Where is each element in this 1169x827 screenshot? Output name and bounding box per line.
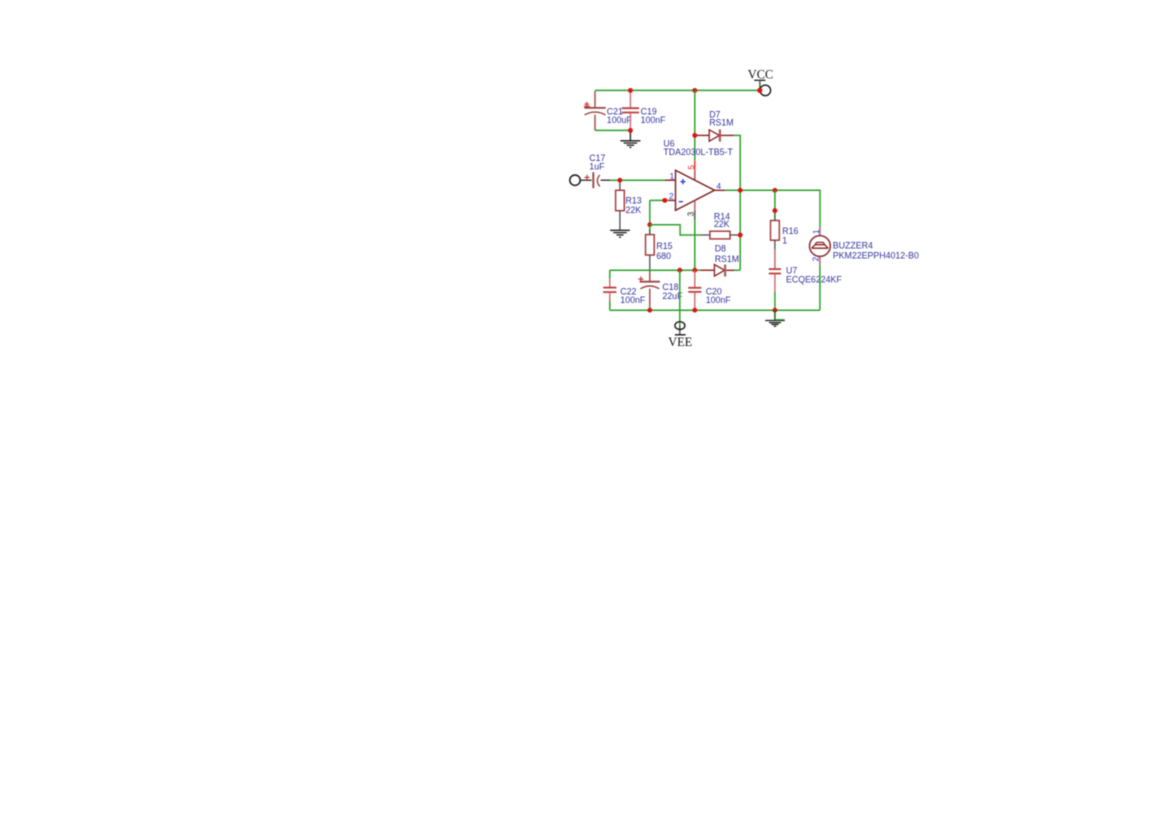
capacitor U7	[769, 249, 843, 310]
svg-text:RS1M: RS1M	[709, 118, 733, 128]
junction dot output	[738, 188, 743, 193]
wire buzzer to GND bus	[819, 265, 821, 310]
capacitor C17	[584, 153, 605, 188]
power port VCC	[748, 67, 773, 95]
svg-text:680: 680	[656, 251, 671, 261]
junction dot R16 upper	[772, 208, 777, 213]
svg-text:TDA2030L-TB5-T: TDA2030L-TB5-T	[663, 147, 733, 157]
resistor R15	[646, 226, 673, 271]
wire C17 to junction	[601, 179, 611, 181]
wire lower GND bus	[610, 309, 820, 311]
junction dot R14 right	[738, 233, 743, 238]
pin 2 wire	[650, 199, 669, 201]
power port VEE	[668, 322, 692, 350]
junction dot input	[617, 178, 622, 183]
resistor R16	[771, 217, 799, 250]
diode D8 RS1M	[695, 244, 739, 277]
pin 3 stub	[694, 201, 696, 211]
svg-text:100nF: 100nF	[641, 115, 667, 125]
wire input to C17	[580, 179, 591, 181]
wire feedback node to R14	[650, 225, 701, 235]
junction dot pin5 top	[692, 88, 697, 93]
wire output	[725, 190, 820, 227]
wire pin5 vertical	[694, 90, 696, 160]
capacitor C20	[688, 270, 731, 310]
capacitor C21	[584, 91, 632, 130]
pin 1 stub	[665, 179, 676, 181]
diode D7 RS1M	[695, 110, 735, 142]
junction dot feedback node	[647, 222, 652, 227]
wire top VCC bus	[595, 89, 760, 91]
wire D7 cathode to right vertical	[734, 135, 740, 270]
wire junction to pin1	[610, 179, 665, 181]
capacitor C22	[603, 270, 646, 310]
svg-text:ECQE6224KF: ECQE6224KF	[786, 275, 842, 285]
svg-text:1uF: 1uF	[589, 162, 605, 172]
svg-text:5: 5	[687, 164, 696, 169]
svg-text:BUZZER4: BUZZER4	[833, 241, 873, 251]
wire pin3 down	[694, 220, 696, 271]
buzzer BUZZER4	[810, 236, 919, 261]
svg-text:D8: D8	[715, 244, 726, 254]
junction dot GND node	[772, 308, 777, 313]
svg-text:2: 2	[669, 192, 674, 201]
svg-text:R15: R15	[656, 241, 672, 251]
svg-text:1: 1	[670, 172, 675, 181]
svg-text:VEE: VEE	[668, 335, 692, 349]
svg-text:VCC: VCC	[748, 67, 773, 81]
pin 4 stub	[715, 189, 726, 191]
svg-text:1: 1	[782, 236, 787, 246]
buzzer top lead	[819, 227, 821, 235]
svg-text:PKM22EPPH4012-B0: PKM22EPPH4012-B0	[833, 250, 919, 260]
resistor R14	[701, 211, 741, 239]
op-amp U6	[663, 138, 733, 210]
wire cap bottom	[595, 129, 630, 131]
junction dot C20 bottom	[692, 308, 697, 313]
svg-text:22K: 22K	[626, 205, 642, 215]
wire pin2 down to feedback node	[649, 200, 651, 224]
junction dot pin3 D8	[692, 268, 697, 273]
junction dot C19 top	[628, 88, 633, 93]
svg-text:22K: 22K	[714, 219, 730, 229]
ground below C19	[620, 132, 640, 147]
svg-text:100uF: 100uF	[607, 115, 633, 125]
svg-text:R16: R16	[782, 226, 798, 236]
wire VEE drop	[679, 270, 681, 325]
junction dot C18 bottom	[647, 308, 652, 313]
junction dot C19 bottom	[628, 128, 633, 133]
junction dot D7 anode	[692, 133, 697, 138]
junction dot VEE bus	[677, 268, 682, 273]
junction dot output R16	[772, 188, 777, 193]
svg-text:100nF: 100nF	[706, 295, 732, 305]
svg-text:100nF: 100nF	[620, 295, 646, 305]
capacitor C19	[622, 90, 666, 130]
ground below U7	[765, 310, 785, 326]
wire upper VEE bus	[610, 269, 695, 271]
input terminal	[570, 175, 580, 185]
svg-text:1: 1	[812, 229, 821, 234]
svg-text:RS1M: RS1M	[715, 254, 739, 264]
resistor R13	[616, 182, 642, 230]
capacitor C18	[638, 271, 683, 310]
wire R16 top	[774, 190, 776, 210]
wire D8 cathode	[734, 269, 740, 271]
ground below R13	[610, 230, 630, 237]
svg-text:2: 2	[811, 256, 820, 261]
pin 5 red segment	[694, 161, 696, 171]
buzzer bottom lead	[819, 257, 821, 265]
